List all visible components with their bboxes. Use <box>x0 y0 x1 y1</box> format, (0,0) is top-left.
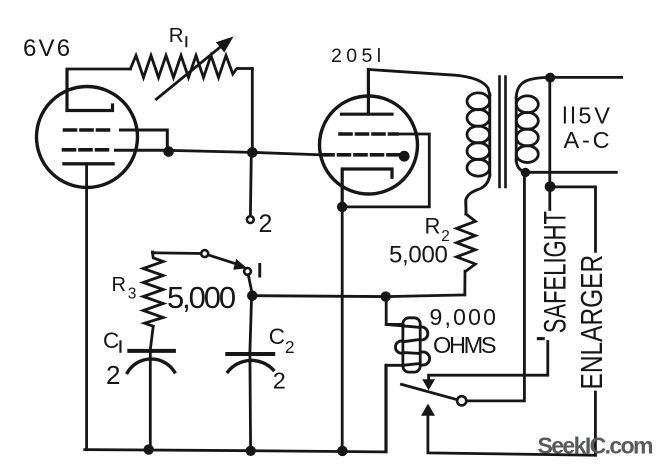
tube V2 2051 envelope <box>320 96 418 194</box>
tube V2 grid 2 internal dot <box>399 151 410 162</box>
wire V1 cathode to bottom <box>85 164 88 450</box>
wire node to contact 2 <box>249 152 253 216</box>
relay switch blade <box>402 384 458 399</box>
wire safelight lower + relay arm feed <box>429 342 548 382</box>
wire V2 cathode to bottom <box>341 207 344 451</box>
wire safelight upper <box>548 80 551 210</box>
wire R1 down to main node <box>251 69 254 153</box>
wire contact 1 to junction <box>248 275 252 292</box>
svg-text:C: C <box>269 324 285 349</box>
transformer T1 secondary coil <box>516 96 538 113</box>
node F junction dot <box>247 291 257 301</box>
wire bottom left bus <box>85 365 386 452</box>
svg-text:R: R <box>112 274 126 296</box>
wire V2 plate to transformer primary <box>369 70 490 96</box>
svg-text:R: R <box>169 24 184 47</box>
node G junction dot <box>381 291 391 301</box>
relay coil K1 winding <box>386 324 429 365</box>
capacitor C1 curved plate <box>127 359 174 373</box>
tube V2 grid 1 lead to bottom bracket <box>342 134 429 207</box>
wire secondary bottom <box>516 160 525 172</box>
node E junction dot <box>521 168 530 177</box>
wire bottom right bus with up arrow <box>428 415 596 455</box>
node H junction dot <box>545 181 556 192</box>
svg-text:A-C: A-C <box>564 127 613 153</box>
contact 2 open circle <box>247 216 254 223</box>
wire secondary top to AC line <box>516 77 548 98</box>
wire main grid bus <box>170 150 321 154</box>
svg-text:2: 2 <box>285 337 295 357</box>
wire R3 to C1 to bottom <box>150 326 153 449</box>
tube V2 cathode <box>342 169 392 207</box>
resistor R1 variable arrow <box>156 43 225 99</box>
svg-text:5,000: 5,000 <box>167 280 236 315</box>
wire enlarger feed <box>552 187 596 251</box>
svg-text:2: 2 <box>259 210 273 238</box>
relay contact open circle <box>457 396 466 405</box>
resistor R3 zigzag <box>143 252 163 326</box>
switch S1 pole open circle <box>201 250 208 257</box>
junction dot C2 bottom <box>246 446 256 456</box>
wire V1 plate to R1 <box>67 68 131 71</box>
tube V1 grid 1 lead <box>121 130 168 151</box>
wire 115V bottom line <box>525 171 616 174</box>
wire R2 top <box>464 200 467 214</box>
svg-text:2: 2 <box>106 360 120 390</box>
svg-text:R: R <box>425 214 441 239</box>
tube V1 grid 2 lead <box>116 149 167 152</box>
capacitor C2 top plate <box>227 352 273 356</box>
capacitor C2 curved plate <box>228 360 273 371</box>
svg-text:5,000: 5,000 <box>389 241 448 268</box>
resistor R2 zigzag <box>457 214 476 271</box>
wire R2 bottom to junction row <box>463 271 466 295</box>
tube V1 plate (top cap) <box>67 70 113 111</box>
svg-text:SAFELIGHT: SAFELIGHT <box>538 211 573 333</box>
arrow down to relay blade <box>422 379 435 390</box>
svg-text:6V6: 6V6 <box>23 35 72 62</box>
tube V2 plate <box>342 70 393 115</box>
node A junction dot <box>163 146 174 157</box>
svg-text:C: C <box>103 328 119 353</box>
svg-text:OHMS: OHMS <box>433 332 496 358</box>
switch S1 blade <box>208 255 240 265</box>
wire R3 top to switch <box>153 251 202 254</box>
wire enlarger lower <box>594 392 597 455</box>
transformer T1 core <box>500 77 506 188</box>
arrow up to relay blade <box>421 404 435 416</box>
safelight hyphen tick <box>537 337 545 340</box>
svg-text:2: 2 <box>273 367 286 393</box>
label contact 1 <box>258 263 261 278</box>
relay coil K1 bobbin <box>403 318 420 372</box>
svg-text:ll5V: ll5V <box>562 103 612 129</box>
junction dot V2 cathode bottom <box>337 446 347 456</box>
junction dot C1 bottom <box>144 444 154 454</box>
wire contact to transformer bottom <box>466 172 524 401</box>
tube V2 grid 1 dashes <box>340 132 397 136</box>
resistor R1 zigzag <box>131 56 253 78</box>
svg-text:ENLARGER: ENLARGER <box>574 255 608 390</box>
capacitor C1 top plate <box>129 349 174 353</box>
contact 1 open circle <box>244 268 251 275</box>
node B junction dot <box>247 147 258 158</box>
wire primary bottom to R2 <box>466 175 490 214</box>
wire 115V top line <box>548 76 622 79</box>
svg-text:205l: 205l <box>331 45 385 67</box>
wire junction row <box>252 295 465 297</box>
node C junction dot <box>337 202 347 212</box>
svg-text:9,000: 9,000 <box>430 304 499 330</box>
tube V2 grid 2 dashes <box>322 153 398 157</box>
node D junction dot <box>545 73 555 83</box>
wire relay coil to bottom <box>385 365 388 452</box>
tube V1 cathode <box>64 162 113 165</box>
transformer T1 primary coil <box>467 93 490 110</box>
wire junction to C2 to bottom <box>250 296 252 451</box>
svg-text:3: 3 <box>128 285 137 302</box>
tube V1 6V6 envelope <box>37 87 138 188</box>
tube V1 grid 1 dashes <box>65 128 113 132</box>
tube V1 grid 2 dashes <box>64 148 111 152</box>
wire junction to relay coil <box>386 297 403 325</box>
